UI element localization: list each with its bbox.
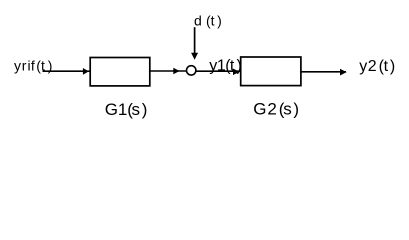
arrowhead into summing junction: [173, 68, 179, 75]
arrowhead d(t) into summing junction: [191, 53, 198, 60]
svg-text:G1(s): G1(s): [105, 100, 148, 119]
svg-text:y1(t): y1(t): [209, 57, 242, 74]
wire G2 to output: [301, 71, 346, 73]
arrowhead into G2: [233, 69, 239, 76]
svg-text:d(t): d(t): [194, 13, 222, 29]
block G2: [241, 57, 301, 86]
block G1: [90, 58, 150, 86]
arrowhead into G1: [83, 68, 89, 75]
wire summing junction to G2: [197, 70, 241, 72]
wire d(t) down to summing junction: [194, 27, 196, 54]
output arrowhead: [340, 69, 347, 76]
summing junction node: [187, 66, 196, 75]
wire input to G1: [43, 70, 91, 72]
wire G1 to summing junction: [150, 70, 186, 72]
